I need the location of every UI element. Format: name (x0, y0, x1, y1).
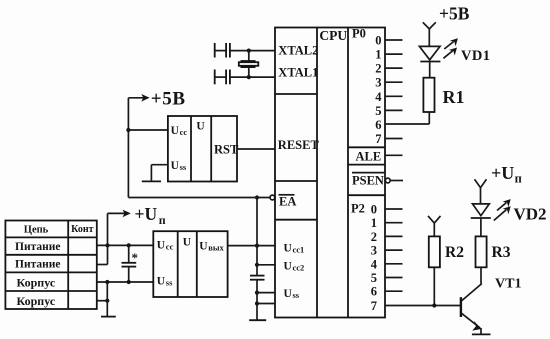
svg-text:2: 2 (375, 62, 381, 76)
svg-text:cc1: cc1 (293, 245, 305, 255)
P2 pin 1 (371, 216, 403, 230)
+U symbol above R2 (428, 216, 441, 237)
P2 pin 4 (371, 257, 403, 271)
wire: EA tie (from +5V rail) (128, 197, 270, 199)
svg-text:U: U (284, 243, 293, 255)
svg-text:0: 0 (371, 203, 377, 217)
svg-text:2: 2 (371, 230, 377, 244)
svg-text:U: U (157, 239, 166, 251)
svg-text:U: U (171, 160, 180, 172)
pin label EA (overlined) (279, 195, 297, 209)
svg-text:U: U (199, 240, 208, 252)
label +5В (top right) (439, 3, 470, 23)
svg-text:4: 4 (371, 257, 378, 271)
svg-text:3: 3 (375, 76, 381, 90)
svg-text:вых: вых (208, 242, 224, 252)
wire: Ucc2 (257, 264, 275, 266)
P0 pin 4 (375, 90, 402, 104)
svg-text:1: 1 (375, 48, 381, 62)
svg-text:RST: RST (214, 143, 239, 157)
svg-text:6: 6 (371, 285, 377, 299)
svg-text:CPU: CPU (319, 28, 347, 43)
svg-text:+5В: +5В (439, 3, 470, 23)
ground rail from Корпус rows (105, 280, 109, 317)
svg-text:4: 4 (375, 90, 382, 104)
LED VD2 (471, 199, 511, 236)
port label P2 (351, 202, 365, 216)
svg-text:U: U (284, 288, 293, 300)
P2 pin 0 (371, 203, 403, 217)
+Uп power rail with arrow (108, 210, 131, 265)
P0 pin 5 (375, 104, 402, 118)
voltage regulator U2 (Ucc/Uss -> Uвых) (153, 231, 227, 297)
svg-text:ss: ss (166, 277, 173, 287)
svg-text:VD2: VD2 (514, 205, 547, 224)
pin label Uss (284, 288, 300, 300)
label R2 (445, 244, 464, 261)
resistor R2 (429, 236, 440, 307)
svg-text:U: U (171, 125, 180, 137)
wire: XTAL1 (230, 75, 275, 79)
capacitor C4 (XTAL1) (215, 70, 230, 85)
P2 pin 5 (371, 271, 403, 285)
label VD1 (461, 48, 490, 64)
label R3 (492, 244, 511, 261)
voltage supervisor U1 (RST) (168, 116, 239, 182)
svg-text:RESET: RESET (278, 138, 320, 152)
capacitor C3 (XTAL2) (215, 43, 230, 58)
CPU block U3 (275, 28, 385, 318)
svg-text:PSEN: PSEN (352, 173, 384, 187)
svg-text:U: U (157, 275, 166, 287)
mid vertical rail (EA tie / decoupling) (255, 195, 259, 275)
svg-text:Цепь: Цепь (24, 224, 49, 235)
P2 pin 6 (371, 285, 403, 299)
svg-text:XTAL1: XTAL1 (278, 66, 318, 80)
svg-text:P2: P2 (351, 202, 365, 216)
P0 pin 0 (375, 34, 402, 48)
LED VD1 (419, 38, 458, 77)
wire: Uвых to CPU Ucc1 (228, 245, 275, 247)
svg-text:U: U (284, 261, 293, 273)
pin label XTAL2 (278, 44, 318, 58)
P0 pin 1 (375, 48, 402, 62)
svg-text:ALE: ALE (356, 150, 382, 164)
svg-text:VD1: VD1 (461, 48, 490, 64)
pin PSEN (overlined, inverted) (352, 173, 403, 188)
junction dot on +Uп rail (105, 243, 109, 247)
svg-text:cc: cc (166, 241, 174, 251)
connector table X1 (5, 221, 96, 310)
wire: XTAL2 (230, 49, 275, 53)
svg-text:Корпус: Корпус (17, 276, 56, 290)
pin label XTAL1 (278, 66, 318, 80)
svg-text:1: 1 (371, 216, 377, 230)
svg-text:R2: R2 (445, 244, 464, 261)
svg-text:7: 7 (375, 132, 381, 146)
svg-text:п: п (159, 213, 166, 227)
resistor R1 (423, 78, 434, 124)
label +Uп (right) (491, 163, 522, 186)
svg-text:R3: R3 (492, 244, 511, 261)
label +Uп (135, 204, 166, 227)
wire: Корпус-1 to regulator Uss (97, 281, 154, 283)
port label P0 (352, 27, 366, 41)
label R1 (443, 87, 465, 107)
svg-text:п: п (515, 172, 522, 186)
resistor R3 (476, 236, 487, 283)
svg-text:Конт: Конт (71, 224, 94, 235)
P0 pin 2 (375, 62, 402, 76)
ground symbol G1 (101, 316, 116, 318)
svg-text:7: 7 (371, 299, 377, 313)
wire: ground stub to CPU (255, 301, 275, 305)
svg-text:0: 0 (375, 34, 381, 48)
svg-text:6: 6 (375, 118, 381, 132)
svg-text:P0: P0 (352, 27, 366, 41)
svg-text:ss: ss (180, 162, 187, 172)
pin label RESET (278, 138, 320, 152)
svg-text:Питание: Питание (15, 259, 60, 271)
wire: Питание-2 up to power node (97, 264, 108, 266)
label VD2 (514, 205, 547, 224)
svg-text:ЕА: ЕА (279, 195, 296, 209)
+5V symbol (top right) (423, 22, 436, 46)
ground symbol G3 (249, 319, 266, 321)
svg-text:+U: +U (135, 204, 158, 224)
ground symbol G4 (472, 333, 491, 335)
pin ALE (356, 150, 403, 164)
wire: Uss (255, 291, 275, 295)
junction dot Ucc1/mid rail (255, 244, 259, 248)
capacitor C2 (250, 276, 265, 321)
label +5В (151, 89, 186, 110)
svg-text:+U: +U (491, 163, 514, 183)
P2 pin 3 (371, 244, 403, 258)
wire: U1 Uss to ground (151, 165, 168, 182)
ground symbol G2 (142, 180, 161, 182)
+5V power rail with arrow (126, 94, 149, 198)
svg-text:+5В: +5В (151, 89, 186, 110)
capacitor C1 (polarized, asterisk) (122, 243, 139, 284)
wire: Питание-1 to regulator Ucc (97, 244, 154, 246)
svg-text:*: * (132, 250, 139, 265)
svg-text:ss: ss (293, 290, 300, 300)
svg-text:3: 3 (371, 244, 377, 258)
svg-text:XTAL2: XTAL2 (278, 44, 318, 58)
wire: Ucc of U1 (128, 129, 168, 131)
P0 pin 3 (375, 76, 402, 90)
transistor VT1 (NPN) (461, 284, 482, 335)
P2 pin 2 (371, 230, 403, 244)
wire: Корпус-2 to ground rail (97, 300, 108, 302)
svg-text:R1: R1 (443, 87, 465, 107)
crystal ZQ1 (239, 51, 258, 78)
svg-text:VT1: VT1 (495, 277, 521, 292)
label VT1 (495, 277, 521, 292)
svg-text:U: U (183, 237, 192, 249)
pin label Ucc1 (284, 243, 305, 255)
svg-text:cc: cc (180, 127, 188, 137)
svg-text:Питание: Питание (15, 241, 60, 253)
wire: RST to RESET (237, 148, 275, 150)
svg-text:cc2: cc2 (293, 263, 305, 273)
pin circle EA (270, 195, 275, 200)
svg-text:5: 5 (371, 271, 377, 285)
P0 pin 6 (wire to R1) (375, 118, 429, 132)
svg-text:U: U (196, 121, 205, 133)
P0 pin 7 (375, 132, 402, 146)
+Uп symbol (right) (475, 179, 487, 204)
svg-text:Корпус: Корпус (17, 294, 56, 308)
P2 pin 7 (wire to VT1 base) (371, 299, 461, 313)
svg-text:5: 5 (375, 104, 381, 118)
label CPU (319, 28, 347, 43)
pin label Ucc2 (284, 261, 305, 273)
